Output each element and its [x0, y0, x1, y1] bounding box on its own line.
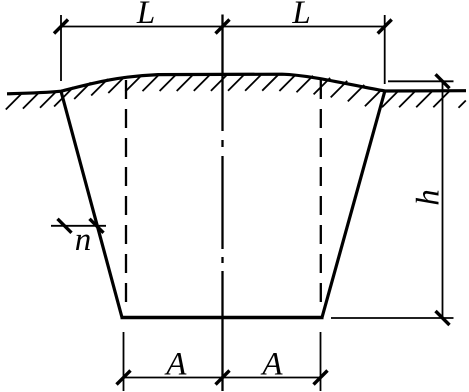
svg-text:n: n — [75, 222, 92, 258]
trench left slope — [61, 91, 122, 318]
trench bottom — [121, 316, 324, 320]
svg-text:L: L — [136, 0, 155, 31]
n slope indicator line — [51, 225, 106, 227]
bottom left extension line — [123, 332, 125, 391]
top right extension line — [384, 15, 386, 84]
centerline (dash-dot) — [221, 15, 223, 392]
h dimension ticks — [436, 74, 450, 325]
ground hatching — [6, 74, 466, 109]
svg-text:L: L — [291, 0, 310, 31]
h bottom extension line — [331, 317, 454, 319]
svg-text:A: A — [260, 347, 283, 383]
bottom dimension ticks — [117, 371, 328, 385]
bottom right extension line — [320, 332, 322, 391]
svg-text:A: A — [164, 347, 187, 383]
dashed vertical left — [125, 80, 127, 303]
n slope indicator ticks — [58, 219, 104, 233]
trench right slope — [322, 91, 385, 318]
top dimension ticks — [54, 20, 392, 34]
ground surface line — [7, 74, 466, 94]
svg-text:h: h — [411, 189, 447, 206]
top dimension line — [61, 26, 385, 28]
h dimension line — [442, 81, 444, 318]
dashed vertical right — [320, 80, 322, 303]
h top extension line — [388, 80, 454, 82]
bottom dimension line — [124, 377, 321, 379]
top left extension line — [60, 15, 62, 81]
